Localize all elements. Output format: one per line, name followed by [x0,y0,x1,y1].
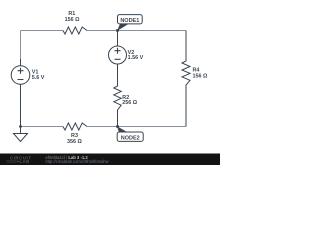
svg-text:5.6 V: 5.6 V [32,75,45,81]
svg-text:R3: R3 [71,133,78,139]
svg-text:NODE1: NODE1 [120,18,139,24]
svg-text:356 Ω: 356 Ω [67,139,82,145]
svg-text:http://circuitlab.com/c/9hmhbm: http://circuitlab.com/c/9hmhbmahw [46,159,109,164]
svg-text:NODE2: NODE2 [121,136,140,142]
svg-text:LAB: LAB [20,159,30,164]
svg-text:156 Ω: 156 Ω [193,74,208,80]
svg-text:156 Ω: 156 Ω [65,17,80,23]
svg-text:256 Ω: 256 Ω [122,100,137,106]
svg-text:1.56 V: 1.56 V [128,55,144,61]
